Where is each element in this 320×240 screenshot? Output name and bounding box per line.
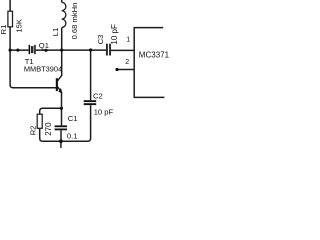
svg-text:Q1: Q1 [39,41,49,50]
svg-text:15K: 15K [15,19,24,33]
svg-text:R1: R1 [0,25,8,35]
svg-text:2: 2 [125,59,129,66]
svg-text:270: 270 [44,122,53,136]
svg-text:C1: C1 [68,114,78,123]
svg-text:0.1: 0.1 [67,132,78,141]
svg-text:0.68 mkHn: 0.68 mkHn [70,3,79,40]
svg-text:10 pF: 10 pF [110,24,119,45]
svg-text:1: 1 [126,37,130,44]
svg-text:MC3371: MC3371 [139,50,170,59]
svg-text:L1: L1 [51,28,60,36]
svg-text:MMBT3904: MMBT3904 [24,65,62,74]
svg-text:C3: C3 [96,35,105,45]
svg-text:C2: C2 [93,91,103,100]
svg-text:R2: R2 [28,126,37,136]
svg-text:10 pF: 10 pF [94,108,114,117]
